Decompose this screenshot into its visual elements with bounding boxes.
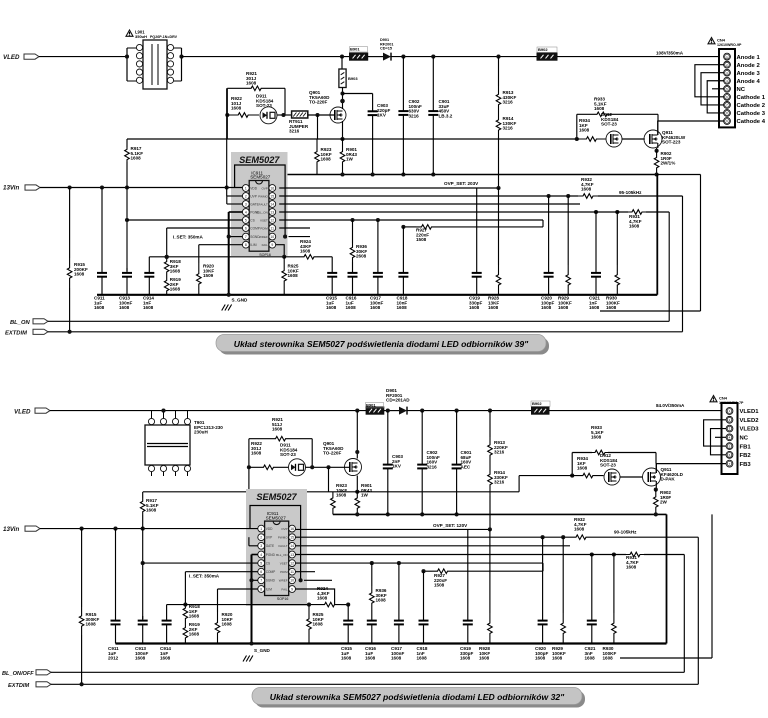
wire C917b drop [398, 563, 400, 616]
wire busb end up [666, 514, 668, 643]
svg-text:B902: B902 [532, 401, 542, 406]
transistor Q901 bottom (TK5A60D) [345, 459, 362, 476]
transistor Q912 bottom [604, 469, 620, 485]
resistor R934 on gate [577, 137, 606, 142]
svg-text:7: 7 [260, 579, 262, 583]
svg-text:1608: 1608 [160, 656, 171, 661]
svg-text:1608: 1608 [135, 656, 146, 661]
C903 bottom label [392, 454, 403, 469]
svg-text:SEM5027: SEM5027 [239, 155, 280, 165]
wire R929b drop [562, 537, 564, 613]
junction return Q901 [340, 172, 344, 176]
svg-text:1KV: 1KV [392, 464, 402, 469]
resistor R928 bottom [488, 613, 493, 644]
wire Q911b drain up [655, 464, 657, 473]
wire pin14b [296, 545, 571, 547]
svg-text:1608: 1608 [577, 466, 588, 471]
wire R917 to C913 [126, 162, 128, 271]
CN4 bottom label [719, 396, 744, 405]
wire D901 to B902 bottom [407, 410, 532, 412]
junction C901 tap [431, 55, 435, 59]
resistor R923 bottom [331, 492, 336, 515]
wire R924 to C915 [319, 257, 332, 268]
junction pin13b C921b [590, 552, 594, 556]
junction C901b tap [455, 409, 459, 413]
wire pin8 to R920 [199, 245, 243, 263]
svg-text:CD=15: CD=15 [380, 47, 392, 51]
svg-text:4: 4 [260, 553, 262, 557]
wire loop right bottom q [655, 453, 657, 464]
Q911 bottom label [661, 467, 684, 482]
svg-text:2608: 2608 [356, 254, 367, 259]
svg-text:5: 5 [245, 218, 247, 222]
wire VLED to L901 [39, 56, 127, 58]
wire RT911 node down [317, 115, 319, 139]
resistor R930 [615, 265, 620, 295]
svg-text:COMP: COMP [250, 226, 260, 230]
svg-text:Układ sterownika SEM5027 podśw: Układ sterownika SEM5027 podświetlenia d… [234, 339, 529, 349]
svg-text:108V/350mA: 108V/350mA [656, 51, 684, 56]
resistor R923 [315, 139, 320, 175]
IC911 bottom ref label IC911 SEM5027 [266, 511, 287, 520]
resistor R920 bottom [215, 612, 220, 644]
wire pin3 stub [227, 196, 243, 204]
wire source bus bottom [143, 491, 519, 493]
svg-text:VLED: VLED [3, 54, 20, 61]
wire frame right outer bottom [620, 514, 712, 658]
wire pin13 with R931 [279, 210, 669, 215]
IC IC911 top body SOP16 [249, 181, 269, 252]
resistor R929 [566, 265, 571, 295]
wire C921b drop [591, 555, 593, 617]
R927 bottom label [434, 573, 447, 588]
svg-text:VSET: VSET [260, 218, 268, 222]
junction VREFb R936b [370, 561, 374, 565]
R902 bottom label [660, 490, 671, 505]
wire pin4 SGND [229, 211, 243, 213]
wire loop right bottom [311, 439, 313, 468]
R927 label [416, 228, 429, 243]
svg-text:1608: 1608 [629, 224, 640, 229]
svg-text:VLED: VLED [14, 408, 31, 415]
svg-text:1608: 1608 [376, 598, 387, 603]
svg-text:EXTDIM: EXTDIM [5, 331, 27, 337]
C901 bottom label [461, 450, 473, 469]
svg-text:I_SET: 350mA: I_SET: 350mA [189, 574, 220, 579]
C918 label [397, 296, 408, 311]
junction Q901 source [340, 137, 344, 141]
D912 bottom label [600, 453, 618, 468]
svg-text:UVP: UVP [266, 536, 273, 540]
resistor R917 bottom [140, 498, 145, 515]
svg-text:90-105kHz: 90-105kHz [614, 530, 637, 535]
R914 label [503, 116, 517, 131]
R930 label [606, 296, 620, 311]
R925 label [288, 264, 299, 279]
wire Q912b gate segment [518, 476, 520, 492]
IC911 bottom package label SOP16 [277, 597, 289, 601]
junction FAIL-R918 [165, 255, 169, 259]
svg-text:1608: 1608 [170, 269, 181, 274]
resistor R930 bottom [612, 613, 617, 644]
svg-text:1W: 1W [361, 493, 369, 498]
ground bus bottom [116, 642, 667, 644]
junction return C902 [401, 172, 405, 176]
B903 label [348, 76, 358, 81]
op-amp/controller IC911 bottom shaded area [246, 489, 307, 606]
svg-text:9: 9 [291, 587, 293, 591]
capacitor C917 [373, 268, 383, 295]
D911 label [256, 94, 274, 109]
junction R913b tap [488, 409, 492, 413]
junction R918b top [183, 603, 187, 607]
svg-text:1608: 1608 [170, 287, 181, 292]
wire B903 to Q901 drain [340, 88, 345, 108]
R919 bottom label [189, 622, 200, 637]
Q901 bottom label [323, 441, 344, 456]
svg-text:1608: 1608 [365, 656, 376, 661]
transformer L901 [127, 40, 182, 89]
svg-text:BL_ON: BL_ON [10, 320, 30, 326]
wire B902 to CN4 pin1 [557, 56, 724, 58]
svg-text:AEC: AEC [461, 464, 471, 469]
wire C917 drop [377, 220, 379, 268]
junction OVP node [496, 186, 500, 190]
junction return C902b [420, 512, 424, 516]
ground symbol bottom [243, 656, 253, 662]
svg-text:VLED1: VLED1 [740, 409, 760, 415]
wire 13Vin rail bottom [40, 528, 258, 530]
B901 bottom label [366, 403, 384, 408]
wire B901 to D901 [368, 56, 383, 58]
wire R933 loop bottom [572, 450, 656, 455]
C920 label [541, 296, 554, 311]
svg-text:1608: 1608 [231, 106, 242, 111]
R923 bottom label [336, 483, 347, 498]
wire FB3 to Q911b [656, 464, 726, 473]
svg-text:8: 8 [245, 243, 247, 247]
svg-text:PQ26P-1N=DRV: PQ26P-1N=DRV [150, 35, 178, 39]
R920 label [203, 264, 214, 279]
B901 label [350, 47, 368, 53]
svg-text:Anode 4: Anode 4 [737, 79, 761, 85]
svg-text:1608: 1608 [626, 565, 637, 570]
svg-text:6: 6 [260, 570, 262, 574]
connector CN4 top (10WRO-9P) [719, 49, 735, 127]
svg-text:OVP: OVP [281, 527, 287, 531]
svg-text:SOP16: SOP16 [259, 253, 271, 257]
capacitor C920 bottom [538, 616, 548, 644]
svg-text:SEM5027: SEM5027 [256, 492, 297, 502]
svg-text:1608: 1608 [317, 596, 328, 601]
svg-text:WREF: WREF [279, 579, 288, 583]
svg-text:1: 1 [260, 527, 262, 531]
caption bottom shadow [255, 691, 585, 708]
R924 label [300, 239, 311, 254]
svg-text:Układ sterownika SEM5027 podśw: Układ sterownika SEM5027 podświetlenia d… [270, 692, 565, 702]
svg-text:1608: 1608 [146, 508, 157, 513]
D911 bottom label [280, 443, 298, 458]
warning triangle CN4 top [708, 38, 715, 44]
wire pin16 OVP [279, 187, 498, 189]
svg-text:1509: 1509 [203, 273, 214, 278]
svg-text:OVP: OVP [261, 186, 267, 190]
junction busb pin4 [249, 641, 253, 645]
wire Q911 drain up [657, 121, 659, 135]
C915 bottom label [341, 646, 352, 661]
svg-text:Cathode 1: Cathode 1 [737, 95, 766, 101]
svg-text:1608: 1608 [574, 527, 585, 532]
wire over-IC loop [235, 165, 286, 237]
svg-text:CD=201AD: CD=201AD [386, 398, 410, 403]
wire 13Vin rail [40, 187, 242, 189]
resistor R915 (EXTDIM pullup) [67, 188, 72, 332]
junction return R901b [355, 512, 359, 516]
diode D901 bottom [399, 407, 407, 415]
R936 bottom label [376, 588, 387, 603]
wire B901-D901 bottom [384, 410, 399, 412]
wire FAIL to R924 [284, 254, 319, 259]
junction C918b top [421, 569, 425, 573]
junction C917b tap [397, 561, 401, 565]
svg-text:VLED3: VLED3 [740, 427, 760, 433]
C917 label [370, 296, 383, 311]
svg-text:12: 12 [270, 218, 274, 222]
capacitor C916 [348, 262, 358, 295]
R921 bottom label [272, 417, 283, 432]
svg-text:SOP16: SOP16 [277, 597, 289, 601]
wire gate loop top bottom with R921 [249, 436, 312, 441]
connector CN4 bottom (10WRO-7P) [722, 403, 738, 474]
svg-text:OVP_SET: 203V: OVP_SET: 203V [444, 181, 479, 186]
svg-text:Cathode 4: Cathode 4 [737, 119, 766, 125]
wire pin13b with R931 [296, 552, 685, 557]
svg-text:12610WRO-9P: 12610WRO-9P [717, 43, 742, 47]
junction return C903 [371, 172, 375, 176]
resistor R920 [197, 263, 202, 295]
label OVP_SET 120V [433, 523, 468, 528]
resistor R925 bottom [307, 605, 312, 644]
C917 bottom label [391, 646, 404, 661]
svg-text:1: 1 [245, 186, 247, 190]
C918 bottom label [417, 646, 428, 661]
wire OVPb to C919b [467, 529, 469, 616]
svg-text:7: 7 [245, 235, 247, 239]
wire pin5 to R917 node [127, 219, 242, 221]
IC911 top ref label IC911 SEM5027 [250, 170, 271, 179]
R934 bottom label [577, 456, 588, 471]
transistor Q911 (KF4620LW) [644, 130, 662, 148]
R925 bottom label [313, 612, 324, 627]
junction EXTDIMb R915b [80, 682, 84, 686]
resistor R925 [282, 257, 287, 295]
wire loop left down bottom [571, 453, 573, 478]
C919 bottom label [460, 646, 473, 661]
wire R936b drop [371, 563, 373, 586]
ferrite bead B903 [339, 69, 346, 88]
node VLED input label [3, 54, 20, 61]
R918 bottom label [189, 604, 200, 619]
wire D901 to B902 [391, 56, 537, 58]
svg-text:3216: 3216 [289, 129, 300, 134]
caption top text [234, 339, 529, 349]
capacitor C919 [472, 268, 482, 295]
svg-text:1608: 1608 [131, 156, 142, 161]
wire R927 branch [403, 225, 543, 230]
junction RTb R929b [561, 535, 565, 539]
resistor R917 [125, 147, 130, 162]
svg-text:PWMO: PWMO [278, 536, 288, 540]
junction over-IC right bottom [299, 578, 303, 582]
connector flag EXTDIM [33, 329, 48, 334]
svg-text:I_SET: 350mA: I_SET: 350mA [173, 234, 204, 239]
wire loop left bottom [248, 439, 250, 538]
wire C920 drop [548, 196, 550, 268]
wire pin9b FAIL loop [296, 589, 335, 605]
wire FAIL bus bottom [167, 602, 349, 607]
junction R902 bottom [655, 172, 659, 176]
CN4 top pin names [737, 55, 766, 125]
wire Q901 drain [342, 107, 344, 109]
R901 label [346, 147, 357, 162]
R918 label [170, 259, 181, 274]
svg-text:230uH: 230uH [194, 430, 208, 435]
resistor R913 bottom [488, 411, 493, 463]
resistor R929 bottom [561, 613, 566, 644]
capacitor C918 bottom [419, 616, 429, 644]
wire BL_ON riser [668, 212, 670, 321]
R929 bottom label [552, 646, 566, 661]
wire R927b branch [424, 569, 544, 574]
svg-text:1608: 1608 [488, 305, 499, 310]
R917 bottom label [146, 498, 159, 513]
ferrite bead B902 [537, 53, 557, 60]
svg-text:CS: CS [266, 562, 270, 566]
wire OVPb junction [489, 529, 491, 613]
svg-text:1608: 1608 [86, 622, 97, 627]
R933 bottom label [591, 425, 604, 440]
resistor R915 bottom [79, 529, 84, 685]
capacitor C920 [544, 268, 554, 295]
junction bus pin4 [227, 293, 231, 297]
wire VREFb corner down [542, 563, 544, 571]
resistor R934 bottom [572, 473, 603, 478]
node BL_ON input label [10, 320, 30, 326]
svg-text:SOT-23: SOT-23 [600, 463, 616, 468]
capacitor C901 bottom [452, 411, 462, 515]
junction 13Vin C911 [100, 185, 104, 189]
junction at L901 left [125, 55, 129, 59]
ground symbol [222, 305, 232, 311]
svg-text:UVP: UVP [250, 194, 257, 198]
junction VREF R936 [350, 218, 354, 222]
junction pin13 R930 [615, 210, 619, 214]
svg-text:1608: 1608 [579, 128, 590, 133]
svg-text:PGND: PGND [266, 553, 276, 557]
wire C918b drop [423, 571, 425, 616]
svg-text:5: 5 [260, 561, 262, 565]
svg-text:2: 2 [245, 194, 247, 198]
resistor R914 [496, 113, 501, 188]
svg-text:SOT-23: SOT-23 [601, 122, 617, 127]
svg-text:3216: 3216 [503, 100, 514, 105]
junction B901 tap bottom [355, 409, 359, 413]
warning triangle CN4 bottom [710, 396, 717, 402]
svg-text:BL_ON/OFF: BL_ON/OFF [2, 671, 34, 677]
junction over-IC right [283, 235, 287, 239]
wire pin10 stub [289, 236, 311, 238]
wire NCb stub [715, 436, 726, 438]
resistor R936 bottom [370, 586, 375, 610]
wire C920b drop [542, 537, 544, 616]
wire pin6 to R918 [167, 228, 243, 257]
capacitor C903 [368, 94, 378, 175]
wire anode2 loop [695, 65, 724, 97]
svg-text:3216: 3216 [494, 480, 505, 485]
C916 bottom label [365, 646, 376, 661]
R915 bottom label [86, 612, 100, 627]
ground bus [97, 294, 657, 296]
wire vled2 loop [704, 420, 726, 446]
svg-text:2W/1%: 2W/1% [661, 161, 676, 166]
Q901 label [309, 90, 330, 105]
svg-text:1608: 1608 [300, 249, 311, 254]
junction gate left bottom [247, 465, 251, 469]
svg-text:PWMO: PWMO [258, 194, 268, 198]
svg-text:B901: B901 [366, 403, 376, 408]
svg-text:1508: 1508 [434, 583, 445, 588]
resistor R922 on gate wire [227, 113, 259, 118]
wire pin12b VREF [296, 562, 544, 564]
svg-text:WREF: WREF [259, 235, 268, 239]
resistor R922 bottom [249, 465, 288, 470]
svg-text:1608: 1608 [591, 435, 602, 440]
R932 label [581, 177, 594, 192]
R934 label [579, 118, 590, 133]
R917 label [131, 146, 144, 161]
svg-text:2W: 2W [660, 500, 668, 505]
svg-text:1608: 1608 [469, 305, 480, 310]
junction C918 top [401, 225, 405, 229]
svg-text:SOT-23: SOT-23 [280, 452, 296, 457]
junction gate left [225, 113, 229, 117]
power return bus bottom [333, 513, 667, 515]
R920 bottom label [222, 612, 233, 627]
wire cathode4 to Q911 [658, 121, 724, 135]
svg-text:1608: 1608 [589, 305, 600, 310]
wire D911 to RT911 [277, 113, 292, 117]
D901 bottom label [386, 388, 410, 403]
C921 label [589, 296, 600, 311]
svg-text:3216: 3216 [494, 450, 505, 455]
wire pin7 to SGND [227, 235, 243, 239]
label 108V/350mA [656, 51, 684, 56]
svg-text:1508: 1508 [416, 237, 427, 242]
C916 label [346, 296, 357, 311]
transistor Q901 (TK5A60D) [330, 107, 346, 123]
junction 13Vin R915 [68, 185, 72, 189]
svg-text:Cathode 2: Cathode 2 [737, 103, 766, 109]
C902 label [409, 99, 422, 118]
wire pin3b stub [249, 537, 258, 546]
R901 bottom label [361, 483, 372, 498]
junction FAILb R925b [307, 603, 311, 607]
C914 bottom label [160, 646, 171, 661]
capacitor C921 bottom [587, 616, 597, 644]
svg-text:14: 14 [270, 202, 274, 206]
junction pin13 C921 [594, 210, 598, 214]
C913 bottom label [135, 646, 148, 661]
